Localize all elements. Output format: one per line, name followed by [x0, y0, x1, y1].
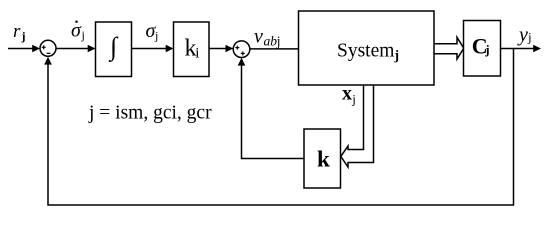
- block System_j: [299, 11, 435, 85]
- wire outer feedback: down from output junction: [48, 49, 514, 206]
- wire Ki to S2: [209, 48, 227, 50]
- wire k to S2: [242, 60, 305, 159]
- svg-text:ab: ab: [264, 34, 278, 49]
- block Cj: [464, 21, 501, 77]
- svg-text:i: i: [195, 45, 199, 61]
- summing junction S1: [40, 40, 56, 56]
- svg-text:j: j: [154, 28, 158, 42]
- summing junction S2: [233, 41, 250, 58]
- hollow arrow System to Cj: [434, 37, 464, 59]
- svg-text:v: v: [254, 26, 263, 48]
- svg-text:r: r: [13, 21, 21, 42]
- svg-text:j = ism, gci, gcr: j = ism, gci, gcr: [88, 103, 212, 124]
- wire output y_j: [501, 48, 535, 50]
- hollow arrow System to k (state feedback): [341, 85, 374, 167]
- svg-text:j: j: [351, 92, 356, 107]
- svg-text:y: y: [517, 24, 528, 46]
- block Ki: [174, 22, 210, 77]
- svg-text:j: j: [21, 29, 26, 43]
- svg-text:System: System: [337, 40, 394, 61]
- svg-text:j: j: [81, 28, 85, 42]
- block k: [304, 129, 341, 188]
- wire S1 to integrator: [56, 48, 89, 50]
- wire integrator to Ki: [132, 48, 168, 50]
- svg-text:j: j: [484, 42, 489, 57]
- svg-text:k: k: [317, 147, 330, 172]
- svg-text:j: j: [394, 48, 400, 63]
- integrator block: [96, 22, 132, 77]
- wire S2 to System: [250, 48, 299, 50]
- wire input r_j: [8, 48, 33, 50]
- svg-text:x: x: [342, 83, 352, 105]
- svg-text:j: j: [276, 34, 281, 49]
- svg-text:j: j: [527, 30, 532, 45]
